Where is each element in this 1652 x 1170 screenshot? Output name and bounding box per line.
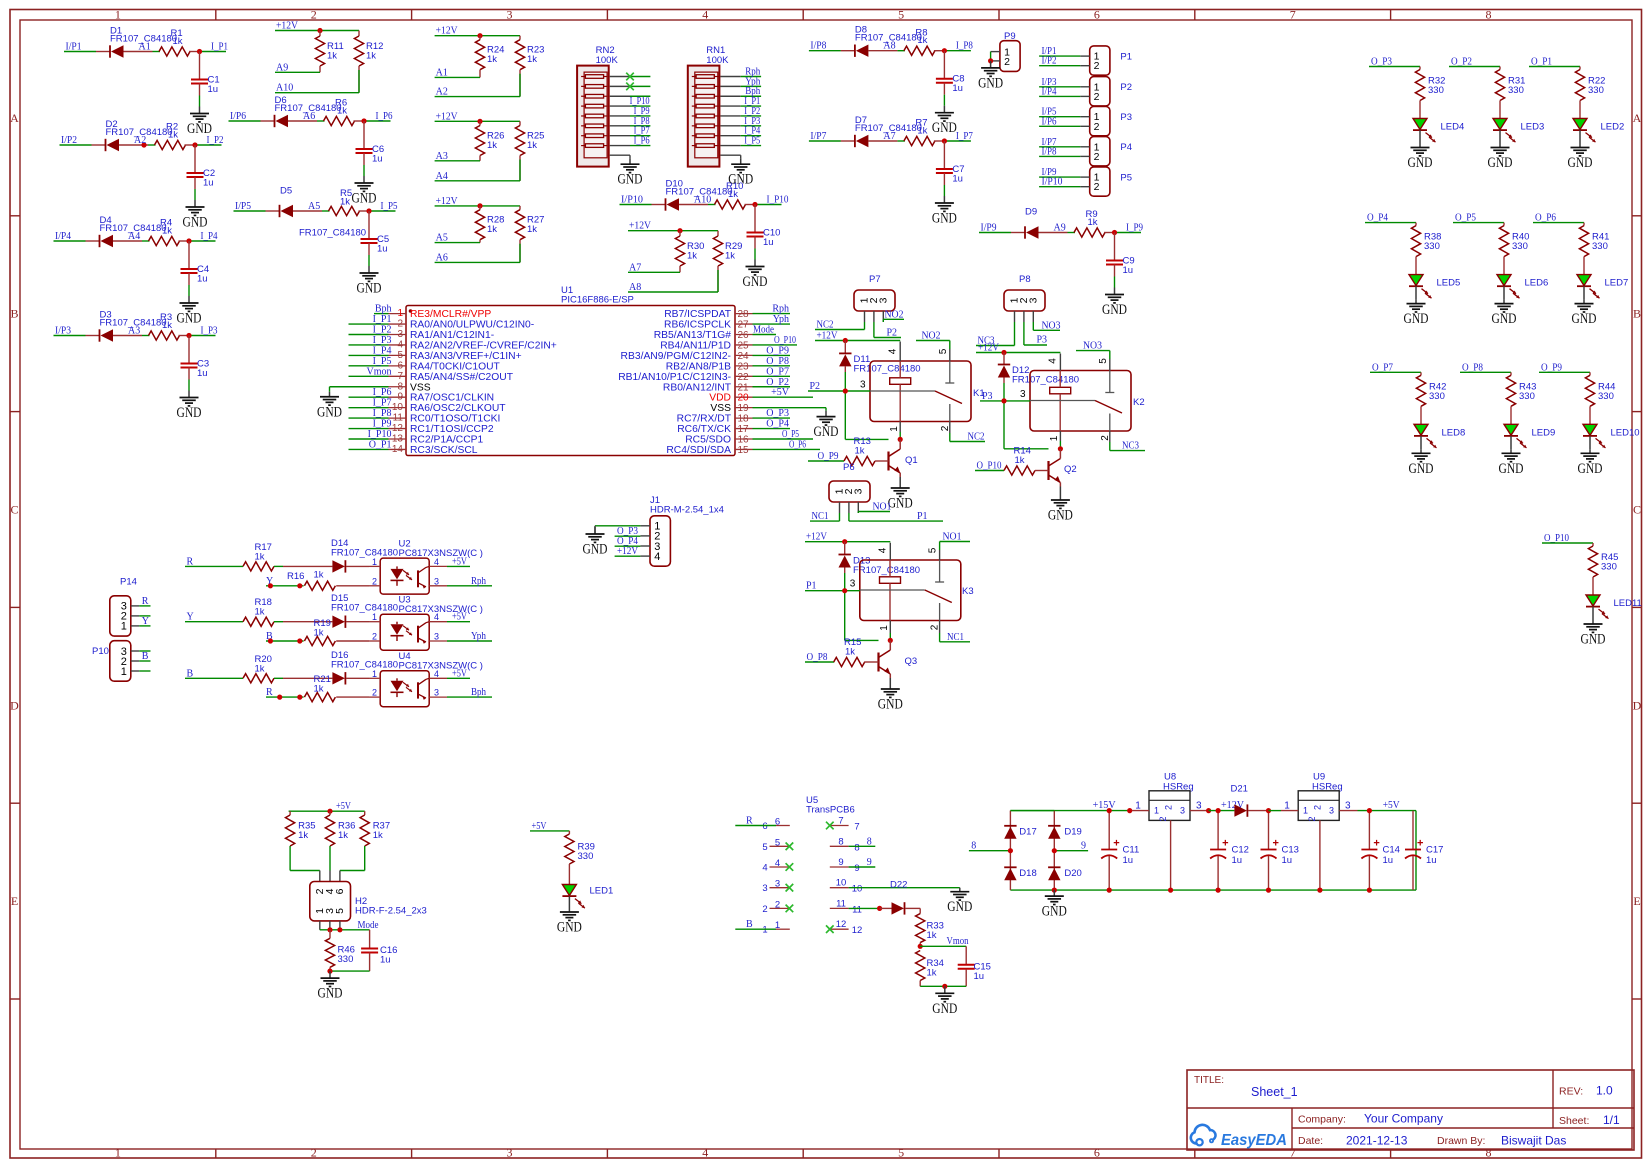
svg-text:Sheet_1: Sheet_1 xyxy=(1251,1085,1298,1099)
wire I/P9 xyxy=(1039,176,1080,178)
svg-text:RA6/OSC2/CLKOUT: RA6/OSC2/CLKOUT xyxy=(410,403,506,414)
resistor R35 xyxy=(286,811,316,846)
svg-text:330: 330 xyxy=(1588,85,1604,96)
resistor R8 xyxy=(904,27,945,55)
svg-text:A3: A3 xyxy=(128,326,140,337)
resistor R39 xyxy=(565,831,595,864)
svg-text:NO1: NO1 xyxy=(873,502,892,513)
ground xyxy=(329,971,331,978)
wire O_P8 to R43 xyxy=(1460,371,1511,373)
svg-text:1: 1 xyxy=(372,557,377,567)
svg-text:RE3/MCLR#/VPP: RE3/MCLR#/VPP xyxy=(410,309,491,320)
svg-text:3: 3 xyxy=(1329,806,1334,816)
resistor R18 xyxy=(185,597,274,626)
svg-text:1k: 1k xyxy=(162,226,172,237)
svg-text:I/P10: I/P10 xyxy=(1042,177,1063,188)
resistor R32 xyxy=(1415,67,1445,101)
wire P14 pin3 R xyxy=(139,605,150,607)
svg-text:FR107_C84180: FR107_C84180 xyxy=(1012,375,1079,386)
diode D1 xyxy=(96,25,177,57)
svg-text:I/P5: I/P5 xyxy=(235,201,251,212)
svg-text:1: 1 xyxy=(879,625,890,631)
svg-text:1u: 1u xyxy=(380,955,391,966)
svg-text:A2: A2 xyxy=(134,135,146,146)
capacitor C16 xyxy=(361,930,397,971)
wire LED8 to gnd xyxy=(1420,436,1422,449)
svg-text:P2: P2 xyxy=(887,328,898,339)
svg-text:1u: 1u xyxy=(763,237,774,248)
wire cap to gnd xyxy=(368,255,370,266)
svg-text:3: 3 xyxy=(507,1146,513,1160)
svg-text:D: D xyxy=(1633,698,1642,712)
svg-text:HDR-F-2.54_2x3: HDR-F-2.54_2x3 xyxy=(355,906,427,917)
resistor R10 xyxy=(715,181,756,209)
svg-text:GND: GND xyxy=(1409,461,1434,477)
wire LED6 to gnd xyxy=(1503,286,1505,299)
ground xyxy=(825,411,827,417)
relay K3 xyxy=(850,547,974,631)
svg-text:LED10: LED10 xyxy=(1611,427,1640,438)
wire R35 to H2 pin2 xyxy=(289,846,291,871)
resistor R23 xyxy=(515,36,544,97)
relay K1 xyxy=(860,348,985,432)
LED LED6 xyxy=(1497,275,1511,286)
U5 pin 2 xyxy=(762,899,788,915)
capacitor C9 xyxy=(1106,233,1135,277)
svg-text:R: R xyxy=(187,556,194,567)
no-connect xyxy=(626,73,634,81)
wire +12V rail xyxy=(435,35,520,37)
svg-text:GND: GND xyxy=(743,274,768,290)
RN1 common pin xyxy=(720,154,740,156)
svg-text:1k: 1k xyxy=(337,106,347,117)
ground xyxy=(1420,449,1422,453)
svg-text:O_P5: O_P5 xyxy=(782,429,799,440)
ground xyxy=(188,391,190,398)
svg-text:GND: GND xyxy=(1048,508,1073,524)
svg-text:D5: D5 xyxy=(280,186,292,197)
net label O_P3 xyxy=(615,535,641,537)
svg-text:LED9: LED9 xyxy=(1532,427,1556,438)
junction xyxy=(1058,446,1063,451)
U5 pin 12 xyxy=(830,919,862,936)
svg-text:1: 1 xyxy=(1284,801,1290,812)
svg-text:FR107_C84180: FR107_C84180 xyxy=(331,603,398,614)
svg-text:Sheet:: Sheet: xyxy=(1559,1115,1589,1127)
resistor R34 xyxy=(916,951,944,987)
U1 pin 4 RA2/AN2/VREF-/CVREF/C2IN+ xyxy=(389,339,557,351)
svg-text:HDR-M-2.54_1x4: HDR-M-2.54_1x4 xyxy=(650,505,724,516)
LED LED5 xyxy=(1409,275,1423,286)
svg-text:+: + xyxy=(1273,838,1279,850)
wire cap to gnd xyxy=(199,96,201,107)
diode D18 xyxy=(1004,867,1037,880)
wire cap to gnd xyxy=(363,165,365,176)
svg-text:A9: A9 xyxy=(1054,223,1066,234)
junction xyxy=(918,944,923,949)
junction xyxy=(898,437,903,442)
svg-text:3: 3 xyxy=(860,380,866,391)
svg-text:B: B xyxy=(10,307,18,321)
connector P1 xyxy=(1080,46,1132,75)
diode D6 xyxy=(261,95,342,127)
svg-text:Biswajit Das: Biswajit Das xyxy=(1501,1134,1566,1148)
no-connect xyxy=(786,843,794,851)
capacitor C17 xyxy=(1412,811,1414,850)
wire P6 pin1 to NC1 xyxy=(839,513,841,521)
svg-text:1k: 1k xyxy=(927,968,937,979)
wire I/P5 xyxy=(1039,116,1080,118)
svg-text:GND: GND xyxy=(1581,632,1606,648)
svg-text:1k: 1k xyxy=(527,224,537,235)
junction xyxy=(477,203,482,208)
svg-text:K3: K3 xyxy=(962,586,974,597)
svg-text:LED7: LED7 xyxy=(1605,278,1629,289)
svg-text:1k: 1k xyxy=(917,35,927,46)
U1 pin 14 RC3/SCK/SCL xyxy=(389,444,478,456)
junction xyxy=(1367,808,1372,813)
resistor R11 xyxy=(315,31,343,73)
svg-text:GND: GND xyxy=(352,191,377,207)
wire LED11 to gnd xyxy=(1592,607,1594,620)
wire/net label O_P10 xyxy=(753,344,798,346)
net label +5V xyxy=(447,677,470,679)
svg-text:7: 7 xyxy=(397,371,403,382)
svg-text:330: 330 xyxy=(338,954,354,965)
svg-text:1k: 1k xyxy=(487,140,497,151)
svg-text:14: 14 xyxy=(392,444,404,455)
RN2 pin 1 xyxy=(610,76,630,78)
svg-text:100K: 100K xyxy=(596,55,619,66)
svg-text:3: 3 xyxy=(762,883,767,894)
ground xyxy=(990,61,992,68)
diode D20 xyxy=(1048,867,1082,880)
svg-text:Mode: Mode xyxy=(753,325,774,336)
wire net 9 xyxy=(849,866,876,868)
wire P8 pin3 to NO3 xyxy=(1032,322,1034,330)
svg-text:2: 2 xyxy=(1094,121,1100,133)
svg-text:1k: 1k xyxy=(314,684,324,695)
node I_P9 junction xyxy=(1112,230,1117,235)
svg-text:330: 330 xyxy=(1424,241,1440,252)
junction xyxy=(317,28,322,33)
LED LED7 xyxy=(1577,275,1591,286)
ground xyxy=(1589,449,1591,453)
svg-text:12: 12 xyxy=(852,925,863,936)
wire/net label O_P3 xyxy=(753,417,791,419)
wire R37 to H2 pin6 xyxy=(364,846,366,871)
svg-text:P3: P3 xyxy=(1037,335,1048,346)
svg-text:1: 1 xyxy=(115,1146,121,1160)
diode D8 xyxy=(841,25,922,57)
wire cap to gnd xyxy=(943,95,945,106)
ground xyxy=(594,527,596,534)
svg-text:330: 330 xyxy=(1508,85,1524,96)
wire A9 xyxy=(275,71,320,73)
svg-text:LED5: LED5 xyxy=(1437,278,1461,289)
wire LED5 to gnd xyxy=(1415,286,1417,299)
wire D13 down to Q3 collector xyxy=(844,573,846,640)
connector P3 xyxy=(1080,107,1132,136)
resistor R12 xyxy=(354,31,383,93)
svg-text:1k: 1k xyxy=(487,54,497,65)
svg-text:I_P1: I_P1 xyxy=(211,42,228,53)
wire I/P4 xyxy=(1039,95,1080,97)
junction xyxy=(842,539,847,544)
svg-text:VSS: VSS xyxy=(710,403,731,414)
svg-text:A10: A10 xyxy=(694,195,711,206)
svg-text:E: E xyxy=(1633,894,1640,908)
svg-text:330: 330 xyxy=(1519,391,1535,402)
svg-text:1k: 1k xyxy=(255,663,265,674)
svg-text:I/P9: I/P9 xyxy=(981,223,997,234)
transistor Q1 xyxy=(877,439,918,477)
U5 pin 7 xyxy=(830,816,860,833)
U1 pin 21 RB0/AN12/INT xyxy=(663,382,753,393)
svg-text:I_P6: I_P6 xyxy=(634,136,650,147)
svg-text:P2: P2 xyxy=(1120,82,1132,93)
U1 pin 8 VSS xyxy=(389,381,431,393)
svg-text:GND: GND xyxy=(1488,155,1513,171)
diode D21 xyxy=(1231,784,1269,817)
resistor R42 xyxy=(1416,372,1446,406)
svg-text:I_P10: I_P10 xyxy=(767,195,789,206)
wire P2 to K1 pin3 xyxy=(808,390,870,392)
svg-text:LED1: LED1 xyxy=(590,886,614,897)
wire C16 bottom to gnd xyxy=(330,970,370,972)
svg-text:A5: A5 xyxy=(308,201,320,212)
diode D7 xyxy=(841,115,922,147)
RN1 pin 8 xyxy=(720,145,740,147)
svg-text:1u: 1u xyxy=(1282,855,1293,866)
svg-text:1: 1 xyxy=(1049,435,1060,441)
U5 pin 4 xyxy=(762,858,788,874)
wire +12V rail xyxy=(275,30,359,32)
svg-text:GND: GND xyxy=(932,120,957,136)
svg-text:1k: 1k xyxy=(725,251,735,262)
wire O_P7 to R42 xyxy=(1370,371,1421,373)
wire LED2 to gnd xyxy=(1579,130,1581,143)
U5 pin 6 xyxy=(762,817,789,833)
regulator U9 HSReg xyxy=(1281,772,1358,891)
U1 pin 25 RB4/AN11/P1D xyxy=(660,340,752,351)
wire O_P10 to R45 xyxy=(1542,542,1593,544)
wire P8 pin2 to P3 xyxy=(1023,322,1025,345)
svg-text:19: 19 xyxy=(738,403,750,414)
wire H2 bottom pins to Mode xyxy=(320,929,370,931)
svg-text:NC2: NC2 xyxy=(817,320,834,331)
resistor R40 xyxy=(1499,223,1529,257)
wire U8 out xyxy=(1209,810,1235,812)
wire A2 xyxy=(435,96,520,98)
svg-text:I_P9: I_P9 xyxy=(373,419,392,430)
svg-text:E: E xyxy=(11,894,18,908)
svg-text:RC4/SDI/SDA: RC4/SDI/SDA xyxy=(666,445,731,456)
wire K1 pin4 xyxy=(899,342,901,362)
svg-text:GND: GND xyxy=(1102,302,1127,318)
svg-text:6: 6 xyxy=(397,360,403,371)
svg-text:O_P1: O_P1 xyxy=(369,439,392,450)
svg-text:RB5/AN13/T1G#: RB5/AN13/T1G# xyxy=(654,330,732,341)
wire J1 pin1 to gnd xyxy=(595,525,640,527)
wire/net label O_P2 xyxy=(753,386,791,388)
wire I/P7 xyxy=(1039,146,1080,148)
svg-text:I_P3: I_P3 xyxy=(201,326,218,337)
svg-text:4: 4 xyxy=(702,8,708,22)
svg-text:Q2: Q2 xyxy=(1064,464,1077,475)
ground xyxy=(889,682,891,689)
svg-text:RC7/RX/DT: RC7/RX/DT xyxy=(677,414,732,425)
ground xyxy=(754,260,756,267)
svg-text:1k: 1k xyxy=(173,36,183,47)
svg-text:1u: 1u xyxy=(203,178,214,189)
no-connect xyxy=(786,905,794,913)
wire I/P3 xyxy=(1039,86,1080,88)
svg-text:10: 10 xyxy=(836,878,847,889)
svg-text:1u: 1u xyxy=(1232,855,1243,866)
svg-text:RC3/SCK/SCL: RC3/SCK/SCL xyxy=(410,445,478,456)
svg-text:8: 8 xyxy=(1486,1146,1492,1160)
svg-text:B: B xyxy=(1633,307,1641,321)
svg-text:O_P2: O_P2 xyxy=(766,377,789,388)
RN2 pin 8 xyxy=(610,145,630,147)
wire K3 pin1 to Q3 xyxy=(889,621,891,634)
svg-text:3: 3 xyxy=(434,576,439,586)
junction xyxy=(1216,808,1221,813)
svg-text:LED4: LED4 xyxy=(1441,122,1465,133)
svg-text:RC6/TX/CK: RC6/TX/CK xyxy=(677,424,731,435)
svg-text:RC0/T1OSO/T1CKI: RC0/T1OSO/T1CKI xyxy=(410,414,500,425)
wire K1 pin2 to NC2 xyxy=(949,422,951,434)
wire/net label I_P10 xyxy=(349,438,389,440)
svg-text:GND: GND xyxy=(357,281,382,297)
svg-text:1k: 1k xyxy=(687,251,697,262)
svg-text:R: R xyxy=(142,596,149,607)
svg-text:B: B xyxy=(142,651,149,662)
LED LED1 xyxy=(562,885,576,896)
wire +12V rail xyxy=(435,120,520,122)
svg-text:3: 3 xyxy=(434,632,439,642)
U5 pin 8 xyxy=(830,836,860,853)
wire pin19 to gnd xyxy=(753,407,827,409)
svg-text:I_P4: I_P4 xyxy=(201,231,218,242)
resistor network RN1 xyxy=(688,45,729,167)
title block xyxy=(1187,1070,1634,1150)
svg-text:GND: GND xyxy=(1572,311,1597,327)
svg-text:330: 330 xyxy=(578,851,594,862)
svg-text:7: 7 xyxy=(1290,8,1296,22)
diode D9 xyxy=(1011,206,1068,238)
wire P10 pin2 B xyxy=(139,660,150,662)
svg-text:5: 5 xyxy=(775,837,780,848)
U1 pin 26 RB5/AN13/T1G# xyxy=(654,330,753,341)
resistor R27 xyxy=(515,206,544,263)
svg-text:25: 25 xyxy=(738,340,750,351)
wire K1 pin1 to Q1 xyxy=(899,422,901,433)
wire Q2 emitter to gnd xyxy=(1059,487,1061,494)
svg-text:I/P4: I/P4 xyxy=(1042,86,1057,97)
svg-text:RA0/AN0/ULPWU/C12IN0-: RA0/AN0/ULPWU/C12IN0- xyxy=(410,320,534,331)
ground xyxy=(944,986,946,993)
wire I/P4 to I_P4 xyxy=(54,240,216,242)
svg-text:5: 5 xyxy=(762,842,767,853)
junction xyxy=(677,228,682,233)
svg-text:9: 9 xyxy=(854,863,859,874)
svg-text:15: 15 xyxy=(738,445,750,456)
svg-text:3: 3 xyxy=(1345,801,1351,812)
svg-text:LED11: LED11 xyxy=(1614,598,1642,609)
node I_P6 junction xyxy=(361,118,366,123)
svg-text:GND: GND xyxy=(1404,311,1429,327)
svg-text:GND: GND xyxy=(1408,155,1433,171)
svg-text:GND: GND xyxy=(183,215,208,231)
wire I/P3 to I_P3 xyxy=(54,335,216,337)
svg-text:P10: P10 xyxy=(92,646,109,657)
wire LED9 to gnd xyxy=(1510,436,1512,449)
wire D11 to Q1 collector xyxy=(844,372,846,439)
svg-text:LED2: LED2 xyxy=(1601,122,1625,133)
svg-text:1: 1 xyxy=(372,612,377,622)
svg-text:Vmon: Vmon xyxy=(367,366,392,377)
ground xyxy=(194,200,196,207)
wire I/P9 to I_P9 xyxy=(979,232,1141,234)
wire +5V rail H2 xyxy=(289,810,365,812)
no-connect xyxy=(786,863,794,871)
svg-text:5: 5 xyxy=(397,350,403,361)
svg-text:10: 10 xyxy=(852,884,863,895)
U1 pin 17 RC6/TX/CK xyxy=(677,424,752,435)
svg-text:I_P3: I_P3 xyxy=(373,335,392,346)
wire R43 to LED9 xyxy=(1510,406,1512,424)
svg-text:4: 4 xyxy=(434,612,439,622)
svg-text:9: 9 xyxy=(838,857,843,868)
svg-text:GND: GND xyxy=(177,405,202,421)
svg-text:3: 3 xyxy=(852,488,864,494)
resistor R17 xyxy=(185,542,274,571)
wire A8 xyxy=(628,291,718,293)
capacitor C7 xyxy=(936,141,965,185)
svg-text:RB6/ICSPCLK: RB6/ICSPCLK xyxy=(664,320,731,331)
svg-text:K2: K2 xyxy=(1133,397,1145,408)
svg-text:2: 2 xyxy=(1158,816,1168,821)
net label Rph xyxy=(447,585,492,587)
capacitor C5 xyxy=(361,211,390,255)
ground xyxy=(1583,300,1585,304)
resistor R26 xyxy=(475,121,504,161)
resistor R1 xyxy=(159,28,200,56)
wire cap to gnd xyxy=(1114,277,1116,288)
RN2 pin 6 xyxy=(610,125,630,127)
svg-text:22: 22 xyxy=(738,372,750,383)
capacitor C11 xyxy=(1108,811,1110,850)
svg-text:1k: 1k xyxy=(845,647,855,658)
wire/net label O_P9 xyxy=(753,354,791,356)
diode D12 xyxy=(998,353,1079,386)
svg-text:330: 330 xyxy=(1598,391,1614,402)
resistor R13 xyxy=(808,436,877,466)
svg-text:P1: P1 xyxy=(917,511,928,522)
svg-text:1: 1 xyxy=(1303,806,1308,816)
svg-text:2: 2 xyxy=(1094,181,1100,193)
svg-text:GND: GND xyxy=(728,172,753,188)
svg-text:GND: GND xyxy=(557,920,582,936)
resistor R14 xyxy=(975,446,1037,476)
svg-text:P6: P6 xyxy=(843,462,855,473)
resistor R31 xyxy=(1495,67,1525,101)
svg-text:1k: 1k xyxy=(366,51,376,62)
svg-text:5: 5 xyxy=(1098,358,1109,364)
svg-text:EasyEDA: EasyEDA xyxy=(1221,1132,1287,1149)
